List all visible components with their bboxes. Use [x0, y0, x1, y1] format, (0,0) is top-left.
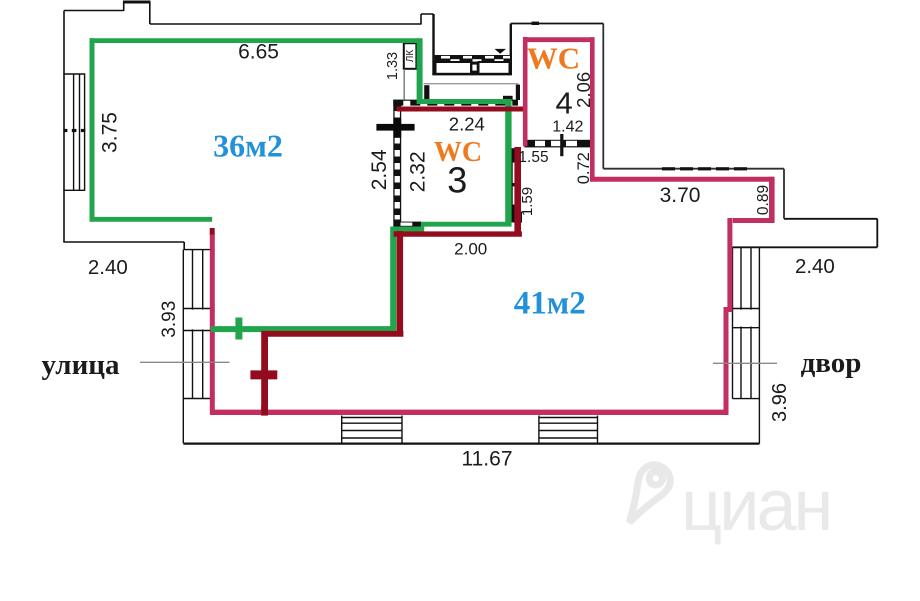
svg-text:11.67: 11.67: [462, 448, 513, 471]
maroon bottom of WC3: [394, 231, 522, 236]
window W1 tick dots: [63, 129, 67, 132]
svg-text:2.54: 2.54: [368, 149, 391, 190]
svg-text:циан: циан: [681, 466, 830, 546]
elevator block walls: [432, 14, 512, 74]
corridor side tick right: [516, 85, 520, 100]
wire: bottom outer wall: [183, 443, 759, 445]
WC3 top-right jamb: [503, 96, 513, 101]
WC3 bottom-left jamb: [398, 222, 421, 227]
WC3 hatched left wall: [393, 100, 401, 227]
svg-text:3.96: 3.96: [769, 383, 791, 422]
window W5 bottom (11.67 right): [539, 416, 598, 444]
window W3 mullion break box: [734, 310, 759, 327]
WC3 1.59 tick: [511, 183, 516, 186]
elevator dashed wall band: [435, 55, 511, 62]
pink left vertical: [210, 234, 215, 415]
wire: tick on top wall: [532, 22, 540, 25]
corridor front line (gray): [424, 83, 519, 85]
staircase LK box: [404, 43, 417, 69]
green hall horizontal: [211, 326, 396, 332]
pink bottom: [210, 410, 728, 415]
svg-text:улица: улица: [42, 349, 120, 381]
watermark pin icon: [616, 459, 676, 530]
svg-text:6.65: 6.65: [238, 41, 279, 64]
corridor side tick left: [424, 85, 429, 99]
wire: top-left notch thick top: [123, 1, 151, 4]
green WC3 bottom: [421, 222, 511, 227]
svg-text:2.40: 2.40: [795, 255, 835, 278]
svg-text:2.24: 2.24: [449, 114, 485, 135]
svg-text:0.89: 0.89: [755, 185, 772, 215]
svg-text:двор: двор: [801, 347, 862, 379]
svg-text:0.72: 0.72: [575, 152, 593, 184]
pink corridor top 3.70: [590, 177, 774, 182]
svg-text:3.93: 3.93: [159, 301, 180, 338]
gray dimension line right (yard window): [713, 362, 777, 364]
maroon drop: [396, 231, 403, 334]
svg-text:3: 3: [447, 160, 467, 201]
wire: top-left outer wall: [64, 2, 434, 25]
pink step left: [733, 218, 775, 223]
maroon cap on pink vertical: [210, 228, 215, 235]
pink WC4 right: [590, 37, 595, 181]
svg-text:1.59: 1.59: [519, 187, 536, 216]
green room outline 36m2: top: [90, 38, 512, 339]
window W3 right (3.96): [733, 247, 760, 443]
elevator car right: [479, 62, 510, 74]
green 36m2 bottom: [90, 217, 213, 222]
maroon right of WC3: [514, 147, 521, 235]
window W1 left (3.75): [63, 74, 85, 190]
wire: inner wall right of WC4: [603, 24, 784, 219]
svg-text:WC: WC: [527, 41, 580, 76]
pink right step down 0.89: [769, 177, 775, 223]
green cross tick: [235, 318, 242, 340]
wire: dashes on 3.70 wall: [662, 167, 747, 170]
WC3 hatched top wall: [393, 100, 518, 103]
wire: right 2.40 step: [733, 219, 878, 248]
svg-text:2.06: 2.06: [573, 72, 594, 108]
green WC3 right: [505, 99, 511, 227]
green left wall: [90, 38, 95, 221]
svg-text:2.32: 2.32: [406, 151, 429, 192]
svg-text:2.40: 2.40: [88, 256, 128, 279]
svg-text:3.75: 3.75: [98, 112, 121, 153]
maroon cross tick: [250, 370, 277, 379]
pink WC4 top: [523, 37, 595, 42]
svg-text:2.00: 2.00: [454, 240, 487, 259]
window W2 mullion break box: [184, 310, 210, 330]
WC3 right wall jamb bottom: [511, 205, 520, 223]
svg-text:41м2: 41м2: [514, 286, 586, 322]
svg-text:ЛК: ЛК: [405, 50, 416, 63]
maroon hall horizontal: [263, 331, 404, 337]
gray line under LK: [403, 69, 405, 100]
WC3 bottom-right jamb: [513, 212, 522, 223]
green jog below WC3: [391, 226, 424, 231]
green WC3 top: [417, 99, 509, 104]
green vertical at LK: [417, 38, 423, 104]
WC3 right wall jamb top: [510, 148, 518, 162]
WC3 right wall thin line between jambs: [511, 163, 513, 205]
maroon vertical to bottom: [261, 331, 268, 416]
svg-text:1.55: 1.55: [518, 149, 548, 166]
elevator car divider: [471, 62, 479, 75]
maroon tip over pink bottom: [261, 406, 268, 416]
wire: top wall over WC4: [511, 23, 604, 25]
pink outline WC4 left: [210, 37, 774, 414]
svg-text:1.42: 1.42: [552, 119, 583, 136]
elevator door triangle mark: [495, 49, 507, 54]
pink right wall down: [726, 218, 730, 414]
gray dimension line left (street window): [140, 361, 230, 363]
window W2 bottom-left (3.93): [183, 250, 211, 444]
svg-text:4: 4: [555, 86, 572, 121]
window W4 bottom (11.67 left): [342, 416, 402, 444]
WC4 1.42 tick: [560, 134, 563, 156]
maroon outline: top of corridor: [212, 109, 523, 415]
WC4 door dashed bar: [524, 140, 592, 148]
svg-text:3.70: 3.70: [660, 184, 701, 207]
svg-text:36м2: 36м2: [213, 128, 283, 164]
elevator car left: [436, 62, 472, 74]
wire: left lower wall to window: [63, 242, 184, 250]
wire: left outer wall: [63, 11, 65, 243]
green drop to hall: [390, 227, 396, 332]
svg-text:1.33: 1.33: [385, 52, 401, 80]
black cross at WC3 left: [376, 124, 414, 131]
